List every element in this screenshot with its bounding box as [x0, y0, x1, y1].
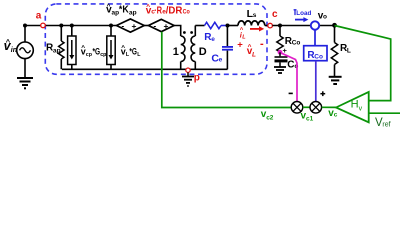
svg-text:o: o — [323, 14, 327, 21]
svg-text:c: c — [272, 9, 278, 20]
svg-text:D: D — [199, 46, 207, 58]
red current label iL with arrow — [240, 26, 265, 40]
svg-text:L: L — [347, 48, 351, 55]
source vin — [17, 26, 34, 78]
inductor Ls — [227, 8, 267, 26]
svg-text:L: L — [252, 51, 256, 58]
svg-text:ap: ap — [129, 10, 137, 17]
dependent source U1 vap*Kap — [117, 19, 145, 32]
node vc1 tap (magenta) — [278, 46, 288, 55]
summer S2 — [310, 91, 325, 113]
wire: node c to RL corner — [272, 25, 334, 27]
svg-text:c2: c2 — [266, 115, 274, 122]
svg-text:c1: c1 — [306, 116, 314, 123]
label vcp*Gcp — [81, 44, 107, 58]
svg-text:Co: Co — [314, 53, 323, 60]
svg-text:*K: *K — [119, 5, 129, 16]
svg-text:^: ^ — [6, 37, 11, 46]
svg-text:H: H — [351, 98, 359, 110]
svg-text:a: a — [36, 11, 42, 22]
svg-text:*G: *G — [93, 46, 101, 56]
transformer T1 secondary winding — [191, 26, 195, 70]
label vc — [328, 108, 338, 119]
label iLoad with arrow (blue) — [294, 10, 312, 22]
ground (under vin) — [17, 78, 33, 88]
amplifier Hv — [336, 92, 369, 122]
wire: summer S2 to Hv — [322, 106, 336, 108]
wire: Vref input — [369, 112, 400, 114]
green feedback wire from vo — [335, 26, 391, 101]
ground (under RL) — [329, 77, 342, 84]
wire between diamonds — [144, 25, 148, 27]
svg-text:e: e — [211, 36, 215, 43]
wire: secondary to Re — [195, 25, 204, 27]
junction dot at vo/RL — [332, 23, 337, 28]
svg-text:-: - — [260, 38, 264, 50]
svg-text:*G: *G — [129, 46, 137, 56]
transformer polarity dots — [183, 31, 193, 34]
svg-text:c: c — [334, 112, 338, 119]
current source vL*GL — [107, 24, 115, 70]
svg-text:ref: ref — [382, 121, 390, 128]
svg-text:1: 1 — [173, 46, 179, 58]
red labels + vL - — [237, 38, 264, 59]
label 1:D — [173, 46, 207, 58]
svg-text:+: + — [164, 21, 169, 31]
terminal vo — [311, 10, 327, 29]
wire between summers — [303, 106, 310, 108]
svg-text:+: + — [237, 40, 243, 51]
resistor Re (blue) — [204, 22, 227, 43]
averaged-model dashed boundary box — [45, 4, 267, 74]
wire: diamond U2 to transformer primary — [174, 26, 181, 37]
capacitor Ce (blue) — [211, 24, 233, 70]
capacitor Co — [275, 52, 299, 70]
label Vref — [375, 117, 391, 129]
current source vcp*Gcp — [68, 24, 76, 70]
label vin — [4, 37, 17, 54]
wire: top rail left (source to diamond U1) — [25, 25, 117, 27]
svg-text:-: - — [122, 21, 125, 30]
label vc1 — [301, 110, 314, 122]
svg-text:e: e — [219, 57, 223, 64]
svg-text:Co: Co — [292, 39, 301, 46]
resistor RCo (damping) — [277, 24, 301, 53]
blue-violet wire to summer S2 — [315, 61, 317, 102]
label vL*GL — [121, 44, 141, 58]
node p with ground — [182, 68, 200, 86]
label vc2 — [261, 109, 274, 122]
sensing block RCo (blue box) — [304, 30, 327, 61]
svg-text:Load: Load — [296, 10, 311, 17]
svg-text:v: v — [359, 106, 363, 113]
node a — [36, 11, 46, 28]
label vap*Kap — [106, 2, 137, 17]
svg-text:+: + — [132, 21, 137, 31]
svg-text:ap: ap — [53, 47, 61, 54]
svg-text:p: p — [194, 72, 200, 83]
svg-text:in: in — [11, 47, 17, 54]
node c — [268, 9, 278, 28]
magenta wire to summer S1 — [282, 53, 297, 101]
summer S1 — [289, 93, 303, 113]
label vc*Re/DRCo (red) — [146, 2, 190, 16]
green control wire from U2 to summer S1 — [162, 32, 291, 108]
junction dot at source top — [23, 24, 27, 28]
ground (under Co) — [274, 67, 286, 73]
svg-text:-: - — [154, 21, 157, 30]
resistor Rap — [46, 24, 64, 70]
dependent source U2 vc*Re/DRCo — [148, 19, 174, 31]
transformer T1 primary winding — [181, 36, 185, 69]
svg-text:s: s — [253, 12, 257, 19]
wire: bottom rail inside box — [62, 68, 228, 70]
svg-text:Co: Co — [183, 9, 190, 16]
svg-text:/DR: /DR — [166, 6, 183, 17]
resistor RL — [331, 26, 351, 77]
